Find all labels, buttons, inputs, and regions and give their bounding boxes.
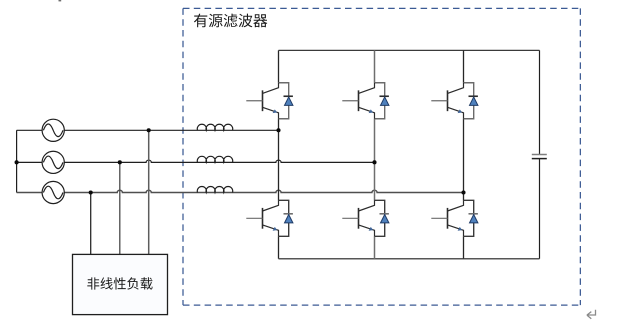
node left bus / phase B — [15, 160, 19, 164]
wire bottom DC bus — [279, 258, 540, 260]
active filter dashed box — [183, 8, 580, 305]
wire leg 1 upper — [278, 50, 280, 82]
wire tap phase C to load — [90, 193, 92, 255]
stray text fragment top — [59, 0, 62, 1]
node phase B tap — [118, 160, 122, 164]
node phase A tap — [147, 128, 151, 132]
wire tap phase A to load — [148, 130, 150, 254]
node leg3 / phase C — [461, 190, 465, 194]
wire leg 3 middle — [463, 119, 465, 201]
node leg1 / phase A — [276, 128, 280, 132]
inductor phase B — [197, 156, 232, 162]
IGBT Q3 with diode D3 — [342, 83, 389, 119]
IGBT Q1 with diode D1 — [246, 83, 293, 119]
wire leg 2 upper — [374, 50, 376, 82]
IGBT Q4 with diode D4 — [342, 200, 389, 236]
wire left source bus — [16, 130, 18, 192]
wire leg 2 lower — [374, 236, 376, 258]
label 有源滤波器 — [194, 14, 268, 28]
wire capacitor lower lead — [539, 159, 541, 259]
paragraph return mark — [587, 310, 596, 319]
AC source phase B — [42, 151, 64, 173]
label 非线性负载 — [87, 277, 152, 289]
inductor phase C — [197, 186, 232, 192]
nonlinear load box — [73, 254, 168, 314]
wire leg 3 lower — [463, 236, 465, 258]
AC source phase A — [42, 119, 64, 141]
wire leg 2 middle — [374, 119, 376, 201]
wire top DC bus — [279, 49, 540, 51]
capacitor C1 — [532, 155, 547, 159]
node phase C tap — [89, 190, 93, 194]
wire phase A — [17, 129, 279, 131]
AC source phase C — [42, 181, 64, 203]
wire leg 1 middle — [278, 119, 280, 201]
IGBT Q6 with diode D6 — [431, 200, 478, 236]
wire leg 1 lower — [278, 236, 280, 258]
node leg2 / phase B — [372, 160, 376, 164]
inductor phase A — [197, 124, 232, 130]
wire capacitor upper lead — [539, 50, 541, 154]
wire phase C — [17, 190, 464, 192]
wire leg 3 upper — [463, 50, 465, 82]
IGBT Q2 with diode D2 — [246, 200, 293, 236]
wire phase B — [17, 160, 375, 162]
IGBT Q5 with diode D5 — [431, 83, 478, 119]
wire tap phase B to load — [119, 162, 121, 254]
